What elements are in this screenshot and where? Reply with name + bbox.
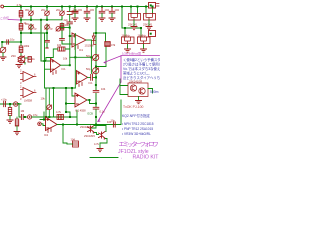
svg-text:0.1u: 0.1u bbox=[100, 110, 106, 114]
svg-text:IC1: IC1 bbox=[79, 48, 84, 52]
wire hline y42 bbox=[2, 41, 21, 43]
ground bbox=[7, 120, 13, 123]
ground bbox=[16, 65, 22, 68]
op-amp U1c bbox=[72, 33, 86, 47]
ground bbox=[125, 49, 131, 52]
wire long vertical rail x96 bbox=[95, 8, 97, 75]
svg-text:16MHz: 16MHz bbox=[122, 33, 131, 37]
input jack J4 bbox=[38, 122, 42, 126]
svg-text:• PNP TR12 2SA1015: • PNP TR12 2SA1015 bbox=[122, 127, 153, 131]
wire x91 drop bbox=[90, 40, 92, 74]
node junction bbox=[95, 66, 97, 68]
capacitor C6 bbox=[67, 22, 72, 24]
wire connections bbox=[94, 126, 107, 149]
wire C6 node down bbox=[69, 28, 71, 65]
op-amp U1d bbox=[75, 93, 87, 107]
svg-text:104: 104 bbox=[115, 8, 120, 12]
trimmer capacitor TC4 bbox=[45, 25, 50, 30]
node junction bbox=[30, 19, 32, 21]
resistor R1 bbox=[19, 11, 23, 18]
wire q1 leads bbox=[131, 8, 138, 14]
wire U1d inputs bbox=[66, 88, 75, 117]
wire output bbox=[148, 89, 153, 94]
wire lower hline bbox=[32, 116, 54, 118]
ground bbox=[136, 101, 142, 104]
crystal X1 bbox=[122, 37, 135, 44]
wire bbox=[133, 20, 135, 26]
wire noninv input bbox=[45, 68, 51, 70]
svg-text:• VR3W 3Ω+6kΩ/RL: • VR3W 3Ω+6kΩ/RL bbox=[122, 132, 151, 136]
wire left rail x41 bbox=[41, 20, 51, 61]
node junctions y28 bbox=[124, 27, 126, 29]
annotation underline bbox=[121, 56, 160, 83]
wire output bbox=[57, 100, 121, 125]
power pins bbox=[79, 83, 82, 87]
ground bbox=[109, 18, 115, 21]
ground bbox=[141, 49, 147, 52]
svg-text:2SC1815: 2SC1815 bbox=[84, 134, 95, 138]
wire top power bus bbox=[4, 6, 148, 8]
op-amp pin diagram A2 bbox=[21, 88, 37, 98]
svg-text:47k: 47k bbox=[111, 43, 116, 47]
wire output bbox=[61, 64, 70, 66]
power pins bbox=[53, 71, 56, 75]
wire bbox=[2, 43, 3, 56]
wire bbox=[69, 8, 71, 22]
transistor Q5 bbox=[99, 132, 106, 140]
wire middle hline y116 bbox=[54, 88, 78, 125]
capacitor C18 series bbox=[113, 122, 115, 127]
power pins bbox=[48, 129, 51, 133]
wire bbox=[143, 45, 145, 49]
wire U1d output bbox=[87, 100, 96, 104]
svg-text:100k: 100k bbox=[24, 44, 30, 48]
svg-text:RADIO KIT: RADIO KIT bbox=[133, 155, 160, 161]
svg-text:IC1: IC1 bbox=[62, 67, 67, 71]
svg-text:2SC: 2SC bbox=[11, 54, 16, 58]
connector CN1 bbox=[149, 3, 156, 9]
ground bbox=[131, 27, 137, 30]
op-amp U2 bbox=[46, 117, 58, 131]
svg-text:Vo.では本スダち3な使えば: Vo.では本スダち3な使えば bbox=[123, 66, 160, 71]
svg-text:50p: 50p bbox=[86, 54, 91, 58]
svg-text:50p: 50p bbox=[86, 67, 91, 71]
connector CN2 bbox=[149, 31, 156, 37]
svg-text:TxOK PJ-100: TxOK PJ-100 bbox=[123, 105, 143, 109]
resistor R3 bbox=[19, 46, 23, 53]
wire bbox=[20, 43, 22, 56]
svg-text:IC1: IC1 bbox=[89, 81, 94, 85]
capacitor C8 series bbox=[7, 40, 9, 44]
transistor Q1 bbox=[129, 14, 141, 21]
IC U3 bbox=[128, 83, 148, 97]
wire right drop x122 bbox=[122, 8, 141, 28]
wire hline y58 bbox=[25, 57, 28, 59]
resistor R4 bbox=[28, 57, 31, 63]
wire column x47 bbox=[46, 8, 48, 48]
svg-text:エミッターフォロワ: エミッターフォロワ bbox=[119, 141, 159, 149]
svg-text:近どきりスダイアヘリち使用: 近どきりスダイアヘリち使用 bbox=[123, 75, 160, 80]
svg-text:20p: 20p bbox=[41, 8, 46, 12]
trimmer VC2 bbox=[93, 54, 99, 60]
wire down from U2 output bbox=[63, 126, 67, 144]
svg-text:103: 103 bbox=[90, 8, 95, 12]
ground bbox=[72, 18, 78, 21]
svg-text:2り扱さは予備して使用した: 2り扱さは予備して使用した bbox=[123, 62, 160, 67]
ground bbox=[97, 149, 103, 152]
svg-text:10u: 10u bbox=[111, 119, 116, 123]
wire lower bus y33 bbox=[21, 32, 47, 34]
diode D1 bbox=[92, 34, 96, 45]
wire U1c input stub bbox=[70, 35, 72, 37]
resistor R7 bbox=[9, 104, 11, 108]
svg-text:10k: 10k bbox=[63, 57, 68, 61]
wire U1c output bbox=[86, 39, 91, 41]
svg-text:2SK241: 2SK241 bbox=[143, 23, 153, 27]
svg-text:30p: 30p bbox=[25, 22, 30, 26]
wire column x31 bbox=[30, 8, 32, 33]
wire column x21 bbox=[20, 8, 22, 42]
svg-text:IC2: IC2 bbox=[44, 133, 49, 137]
svg-text:KQ2.NFF付き指定: KQ2.NFF付き指定 bbox=[122, 113, 150, 118]
wire mid bus bbox=[21, 19, 62, 21]
wire bbox=[138, 97, 140, 101]
svg-text:4.7k: 4.7k bbox=[56, 110, 62, 114]
capacitor C10 polarized bbox=[4, 101, 6, 106]
svg-text:4.7k: 4.7k bbox=[94, 142, 100, 146]
svg-text:2SK241GR: 2SK241GR bbox=[129, 80, 142, 84]
jack J3 bbox=[28, 115, 32, 119]
wire feedback bbox=[46, 49, 70, 61]
op-amp pin diagram A1 bbox=[21, 72, 37, 82]
wire x1 lead bbox=[124, 29, 126, 37]
capacitor C15 bbox=[93, 107, 99, 109]
jack J2 bbox=[14, 102, 18, 106]
node junction bbox=[20, 41, 22, 43]
wire input hline y104 bbox=[0, 103, 21, 105]
svg-text:.: . bbox=[121, 155, 122, 161]
svg-text:1M: 1M bbox=[21, 109, 25, 113]
wire bottom bus bbox=[90, 157, 118, 159]
wire bbox=[127, 45, 129, 49]
svg-text:22p: 22p bbox=[64, 18, 69, 22]
resistor R8 bbox=[16, 117, 18, 119]
svg-text:この伝: この伝 bbox=[0, 15, 9, 20]
svg-text:2SC1815: 2SC1815 bbox=[80, 125, 91, 129]
wire column x62 bbox=[62, 8, 72, 44]
svg-text:500m: 500m bbox=[150, 90, 159, 94]
feedback resistor R5 bbox=[58, 47, 65, 51]
power pins bbox=[75, 46, 78, 50]
svg-text:47u: 47u bbox=[33, 113, 38, 117]
crystal X2 bbox=[138, 37, 151, 44]
svg-text:4.7k: 4.7k bbox=[17, 3, 23, 7]
resistor R2 bbox=[19, 24, 23, 31]
svg-text:10k: 10k bbox=[41, 97, 46, 101]
wire inputs bbox=[40, 112, 46, 126]
variable capacitor VC1 bbox=[56, 27, 61, 32]
wire x96 rail bbox=[95, 8, 97, 107]
capacitor C4 bbox=[109, 8, 115, 13]
input jack J1 bbox=[1, 5, 5, 8]
wire emitter bbox=[24, 63, 26, 65]
ground bbox=[146, 27, 152, 30]
trimmer capacitor TC2 bbox=[29, 25, 34, 30]
svg-text:+10u: +10u bbox=[1, 98, 7, 102]
node junction bbox=[46, 19, 48, 21]
node A junction bbox=[20, 19, 22, 21]
wire down to lower line bbox=[18, 104, 21, 118]
svg-text:20p: 20p bbox=[56, 8, 61, 12]
wire x2 lead bbox=[140, 29, 142, 37]
trimmer capacitor TC5 bbox=[60, 11, 65, 16]
annotation arrow to output node bbox=[98, 82, 121, 122]
svg-text:103: 103 bbox=[78, 8, 83, 12]
capacitor C3 bbox=[99, 8, 105, 13]
svg-text:2SK241: 2SK241 bbox=[128, 23, 138, 27]
wire bbox=[148, 20, 150, 26]
svg-text:30p: 30p bbox=[25, 8, 30, 12]
wire bbox=[91, 109, 97, 128]
svg-text:IC1 4558: IC1 4558 bbox=[75, 109, 86, 113]
svg-text:帯域ようにUCし、: 帯域ようにUCし、 bbox=[123, 71, 152, 76]
ground bbox=[14, 132, 20, 135]
resistor R9 bbox=[57, 115, 64, 120]
wire x75 drop bbox=[74, 34, 76, 89]
svg-text:ECB: ECB bbox=[88, 112, 94, 116]
ground bbox=[0, 57, 6, 60]
capacitor C17 series bbox=[91, 75, 93, 81]
wire x46 rail bbox=[45, 88, 47, 117]
svg-text:10u: 10u bbox=[10, 38, 15, 42]
wire U1b output bbox=[88, 76, 96, 78]
variable resistor VR2 bbox=[48, 88, 50, 117]
wire bbox=[23, 116, 27, 118]
wire bbox=[120, 79, 128, 95]
node junction bbox=[69, 27, 71, 29]
svg-text:104: 104 bbox=[101, 87, 106, 91]
node junction dots on top bus bbox=[20, 6, 154, 8]
svg-text:10k: 10k bbox=[57, 43, 62, 47]
resistor R10 bbox=[105, 42, 110, 47]
svg-text:1S1588: 1S1588 bbox=[85, 44, 95, 48]
transistor Q3 bbox=[18, 56, 25, 63]
capacitor C1 bbox=[72, 11, 78, 13]
svg-text:104: 104 bbox=[105, 8, 110, 12]
annotation arrow to trimmers bbox=[104, 56, 121, 63]
capacitor C2 bbox=[84, 8, 90, 13]
svg-text:• NPN TR12 2SC1815: • NPN TR12 2SC1815 bbox=[122, 122, 154, 126]
trimmer capacitor TC3 bbox=[45, 11, 50, 16]
trimmer capacitor TC1 bbox=[29, 11, 34, 16]
transistor Q4 bbox=[88, 126, 95, 134]
capacitor C5 series bbox=[67, 12, 72, 15]
svg-text:く使8番2という予備スダ: く使8番2という予備スダ bbox=[123, 57, 160, 62]
wire q2 leads bbox=[146, 8, 153, 14]
wire feedback hline y88 bbox=[45, 87, 76, 89]
svg-text:LM358: LM358 bbox=[24, 99, 32, 103]
op-amp U1 bbox=[51, 59, 61, 73]
ground bbox=[84, 18, 90, 21]
transistor Q2 bbox=[144, 14, 156, 21]
wire annotation pointer bbox=[9, 19, 21, 22]
svg-text:16MHz: 16MHz bbox=[138, 33, 147, 37]
capacitor C9 bbox=[93, 90, 99, 92]
wire D1 branch bbox=[94, 33, 107, 67]
trimmer VC3 bbox=[93, 68, 99, 74]
potentiometer VR1 bbox=[0, 47, 6, 53]
op-amp U1b bbox=[76, 71, 87, 84]
svg-text:1/2w 6dB/oct増: 1/2w 6dB/oct増 bbox=[122, 52, 141, 56]
inductor L1 bbox=[60, 24, 64, 31]
node junction bbox=[95, 32, 97, 34]
capacitor C16 series bbox=[21, 115, 23, 120]
wire interstage hline bbox=[70, 56, 92, 58]
ground bbox=[99, 18, 105, 21]
wire bbox=[61, 24, 70, 28]
